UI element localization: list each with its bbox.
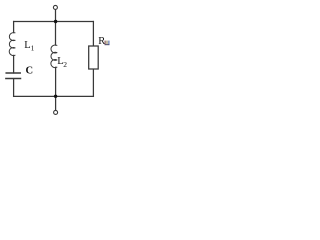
svg-text:R: R xyxy=(98,36,105,47)
svg-text:C: C xyxy=(26,66,34,77)
svg-text:1: 1 xyxy=(31,44,35,53)
svg-text:2: 2 xyxy=(63,60,67,69)
